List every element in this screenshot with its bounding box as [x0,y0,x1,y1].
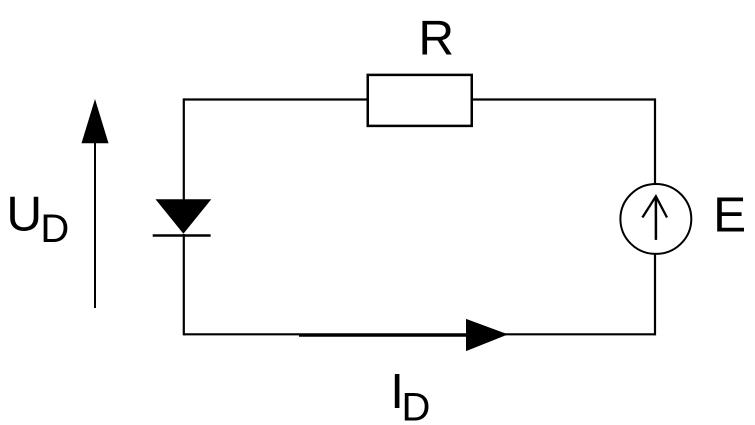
diode D1 cathode bar [153,234,211,237]
current arrow I_D head [466,319,508,351]
resistor R (rectangle body) [368,75,472,126]
wire: top-left segment (node A to resistor) [184,98,367,100]
diode D1 (triangle, cathode down) [156,199,212,234]
current source E arrow head (chevron) [642,196,667,217]
wire: top-right segment (resistor to node B) [472,98,655,100]
wire: bottom segment (node D to node C) [184,333,655,335]
svg-text:R: R [418,11,454,66]
wire: right upper segment (node B to source E) [654,98,656,183]
current source E arrow shaft [655,198,658,240]
wire: right lower segment (source E to node C) [654,255,656,336]
current arrow I_D shaft (thick overlay on bottom wire) [299,334,470,337]
voltage arrow U_D shaft [94,141,96,308]
voltage arrow U_D head [82,99,109,143]
current source E (circle) [620,184,691,254]
wire: left upper segment (node A to diode anode) [183,98,185,200]
wire: left lower segment (diode cathode to node D) [183,234,185,335]
svg-text:E: E [713,188,746,243]
